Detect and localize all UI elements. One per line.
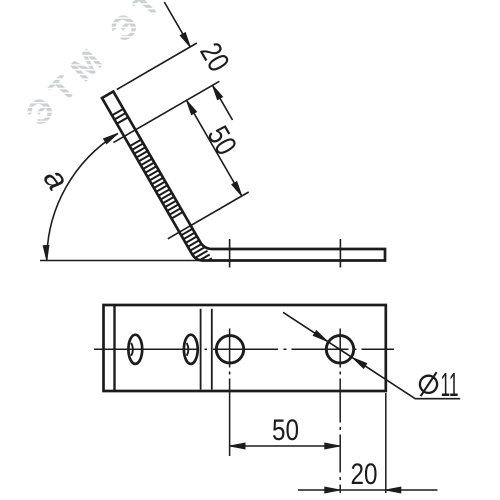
left inner edge line: [113, 305, 115, 391]
extension line E_S2 through slot2: [168, 192, 249, 239]
horizontal reference line for angle: [40, 260, 199, 262]
extension line E_T from plate end: [117, 43, 197, 90]
arc arrowhead top: [104, 133, 118, 143]
bend tangent line 1: [200, 309, 202, 390]
vertical centerline hole 2: [339, 329, 341, 494]
right edge extension line: [385, 393, 387, 493]
watermark ЭТМ logo: [19, 0, 201, 134]
dim 50 bottom: [230, 445, 340, 447]
leader arrowhead lower: [353, 358, 367, 369]
hole 1 center tick on flange (top view): [229, 239, 231, 268]
slot ellipse 2: [184, 335, 198, 364]
svg-text:11: 11: [441, 366, 459, 403]
bend tangent line 2: [211, 309, 213, 390]
arrowhead at D: [232, 182, 242, 196]
svg-text:20: 20: [193, 37, 235, 77]
dim 50 line (top view): [187, 100, 242, 196]
angle arc a: [47, 133, 118, 260]
extension line E_S1 through slot1: [113, 81, 219, 142]
arrowhead at E_T: [180, 33, 190, 47]
leader arrowhead upper: [313, 331, 327, 342]
vertical centerline hole 1: [229, 329, 231, 457]
dim 20 outer shaft lower: [213, 85, 233, 120]
label Ø11: [420, 366, 459, 403]
dim 20 bottom: [298, 489, 438, 491]
dim 20 outer shaft upper: [164, 2, 190, 47]
svg-text:a: a: [37, 162, 77, 197]
section hatching: [110, 108, 216, 275]
svg-text:20: 20: [351, 458, 378, 491]
hole circle 1: [216, 336, 243, 363]
arrowhead at C: [187, 100, 197, 114]
arc arrowhead bottom: [43, 245, 49, 260]
diameter leader line: [283, 312, 460, 398]
arrowhead at E_S1 for 20: [213, 85, 223, 99]
svg-text:50: 50: [201, 121, 243, 161]
top view: bracket cross-section outline: [102, 92, 385, 261]
hole circle 2: [326, 336, 353, 363]
slot ellipse 1: [128, 335, 142, 364]
hole 2 center tick on flange (top view): [339, 239, 341, 268]
svg-text:50: 50: [272, 414, 299, 447]
plate rectangle: [104, 305, 386, 391]
horizontal centerline: [94, 348, 394, 350]
